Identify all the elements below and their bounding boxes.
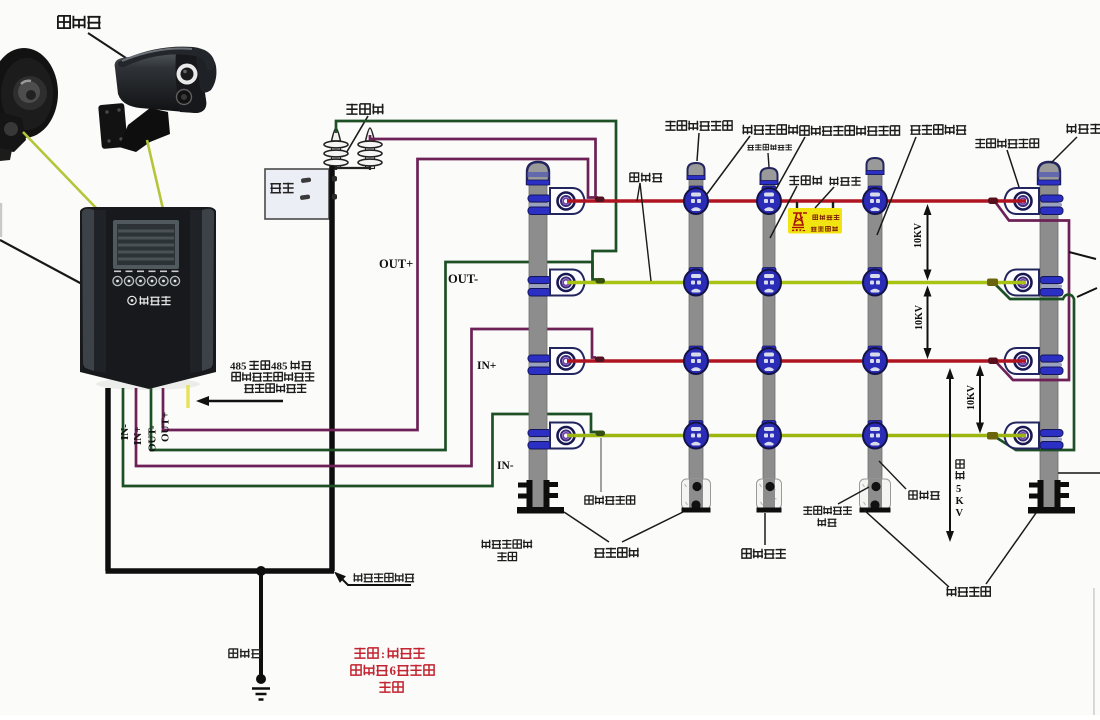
svg-text:OUT-: OUT- [448,272,478,286]
tensioner insulator post5 w3 [1005,348,1040,374]
post5 clamp bands w3 [1040,355,1063,375]
intermediate post 4 shaft [868,172,882,511]
svg-text:IN-: IN- [119,424,131,440]
intermediate post 4 rain cap [867,158,884,174]
svg-text:10KV: 10KV [913,222,924,248]
warning sign small text [792,229,805,231]
label 合金线 [630,173,662,182]
wall box 围墙 [265,169,329,219]
camera IR led [177,90,192,105]
controller shadow [96,378,200,390]
label 低电磁围栏地 [353,573,414,582]
warning sign text lines [813,215,840,220]
note 485 line1 [230,361,311,373]
connector wire2 left [596,278,606,284]
note red text line2 统一用6平方的 [351,663,434,678]
right loop wire2-wire4 (dark green) [996,285,1074,450]
dim arrow 10KV w2-w3 [927,295,929,351]
intermediate post 3 shaft [763,182,775,511]
leader stub 1 [1069,252,1096,259]
warning sign pylon icon [792,213,807,228]
fence wire 4 (yellow-green) [567,434,1026,437]
leader 承力杆固定螺丝 [838,487,869,504]
leader 万向底座 2 [764,513,766,545]
leader [815,187,834,208]
controller ground wire (thick) [105,388,111,571]
ring insulator post@696 w3 [684,346,708,374]
wire speaker to controller [23,132,98,210]
leader [877,137,916,235]
post2 universal base [682,479,711,513]
warning sign hangers [797,202,833,212]
label 线线连接器 [585,496,635,505]
svg-text:6: 6 [390,663,397,678]
note red text line3 铜线 [379,682,403,693]
ring insulator post@769 w4 [757,421,781,449]
ring insulator post@769 w1 [757,186,781,214]
arrow to ground junction [341,578,411,585]
post1 clamp bands w2 [528,277,551,297]
leader [770,186,797,238]
leader [1051,137,1077,163]
label 中间杆 [789,176,822,185]
leader stub 2 [1077,288,1097,297]
post1 clamp bands w3 [528,355,551,375]
leader line left [0,240,82,284]
label 螺栓型中间杆绝缘子 [800,126,900,136]
ring insulator post@875 w2 [863,268,887,296]
label 万向底座 right [946,587,990,597]
leader [1007,150,1019,187]
label 承力杆固定螺丝 [803,506,851,514]
label 终端杆固定螺丝 [481,540,532,549]
leader 承力杆 [879,461,906,489]
svg-text:485: 485 [230,361,247,373]
label 高压地 [229,649,261,658]
leader [775,137,805,191]
terminal post 5 cap [1038,162,1060,184]
svg-text:IN+: IN+ [477,360,496,372]
right edge artifact [1093,588,1095,715]
note 485 line2 [232,372,314,381]
leader [707,136,750,194]
label 警示牌 [829,177,860,186]
label 万向底座 2 [742,549,786,559]
ground stub right [1058,472,1100,474]
speaker horn [0,48,58,161]
leader [697,133,699,161]
intermediate post 2 rain cap [688,163,705,179]
fence wire 3 (red) [567,359,1026,362]
wall anchors [301,177,312,183]
intermediate post 2 shaft [689,177,703,511]
terminal post1 base clamp [517,480,564,514]
svg-text:10KV: 10KV [914,304,925,330]
label 承立杆防雨帽 [665,121,732,131]
leader 线线连接器 [600,438,602,492]
label 终端杆绝缘子 [975,139,1038,148]
controller logo [128,296,171,305]
intermediate post 3 rain cap [761,168,778,184]
svg-text:OUT+: OUT+ [379,257,413,271]
leader [768,153,769,167]
camera lens [177,64,198,85]
wire OUT- (dark green) [151,262,597,450]
wall ground wire (thick) [329,166,335,571]
post5 clamp bands w1 [1040,195,1063,215]
ring insulator post@769 w2 [757,268,781,296]
svg-text:OUT+: OUT+ [160,412,172,442]
svg-text:IN-: IN- [497,460,514,472]
leader camera [88,33,126,58]
label 承力杆 [909,491,940,499]
ground symbol [252,689,270,700]
wall edge artifact [0,203,2,237]
post5 clamp bands w4 [1040,430,1063,450]
svg-text:OUT-: OUT- [147,425,159,452]
warning sign 警示牌 [788,208,842,234]
ring insulator post@769 w3 [757,346,781,374]
svg-text:IN+: IN+ [132,427,144,446]
svg-text::: : [381,647,385,661]
controller buttons [113,271,180,286]
wire arrester purple [370,135,598,198]
post3 universal base [757,479,782,513]
connector wire4 left [596,431,606,437]
tensioner insulator post1 w4 [550,423,585,449]
post5 clamp bands w2 [1040,277,1063,297]
ring insulator post@696 w1 [684,186,708,214]
tensioner insulator post5 w2 [1005,270,1040,296]
post4 universal base [860,479,891,513]
terminal post 5 shaft [1040,185,1058,513]
fence wire 2 (yellow-green) [567,281,1026,284]
controller screen [113,220,179,269]
wire camera to controller [147,140,163,209]
wire arrester green [336,121,616,278]
dim arrow 10KV w1-w2 [927,213,929,272]
arrow to yellow mark [207,400,283,402]
note 485 line3 [244,384,306,393]
lightning arrester 1 [324,128,348,170]
terminal post 1 shaft [529,180,547,513]
earth wire [259,571,263,679]
svg-text:K: K [956,496,965,507]
post1 clamp bands w4 [528,430,551,450]
svg-text:10KV: 10KV [966,384,977,410]
label 避雷器 [346,104,383,115]
terminal post5 base clamp [1028,480,1075,514]
connector wire1 right [988,198,998,205]
svg-text:485: 485 [271,361,288,373]
right loop wire1-wire3 (purple) [996,203,1069,380]
label camera 摄像头 [58,16,101,28]
label 围墙 [270,183,293,193]
ring insulator post@696 w2 [684,268,708,296]
connector wire1 left [595,197,605,203]
wire IN- (dark green) [123,388,597,486]
dim arrow 对地5KV [949,377,951,533]
terminal post 1 cap [527,162,549,184]
ring insulator post@875 w3 [863,346,887,374]
tensioner insulator post1 w2 [550,270,585,296]
label 套环绝缘子 [742,125,798,135]
controller keypad unit [80,207,216,389]
label 万向底座 1 [594,548,638,558]
ring insulator post@875 w1 [863,186,887,214]
post1 clamp bands w1 [528,195,551,215]
ring insulator post@875 w4 [863,421,887,449]
arrester ground bus [332,167,371,169]
label 对地5KV [955,460,964,519]
label 终端杆 [1066,124,1100,134]
ring insulator post@696 w4 [684,421,708,449]
wire OUT+ (purple) [163,159,596,430]
ground junction node [256,566,266,576]
tensioner insulator post1 w3 [550,348,585,374]
camera hood [196,54,216,93]
lightning arrester 2 [358,128,382,170]
connector wire3 right [988,358,998,365]
tensioner insulator post5 w1 [1005,188,1040,214]
connector wire3 left [595,357,605,363]
connector wire2 right [987,279,998,287]
note red text line1 备注接地线 [354,647,424,661]
yellow mark [186,385,190,408]
label 中间杆防雨帽 [747,144,792,150]
leaders 万向底座 right [864,510,1036,587]
svg-text:5: 5 [956,484,961,495]
label 中间承力杆 [910,125,966,135]
leaders 万向底座 1 [564,512,683,542]
fence wire 1 (red) [567,199,1026,202]
connector wire4 right [987,432,998,440]
leaders 合金线 [637,183,640,201]
svg-text:V: V [956,508,964,519]
tensioner insulator post1 w1 [550,188,585,214]
camera bracket [98,103,170,152]
wire IN+ (purple) [136,329,596,466]
leader arrester [345,116,368,155]
dim arrow 10KV w3-w4 [979,374,981,425]
tensioner insulator post5 w4 [1005,423,1040,449]
